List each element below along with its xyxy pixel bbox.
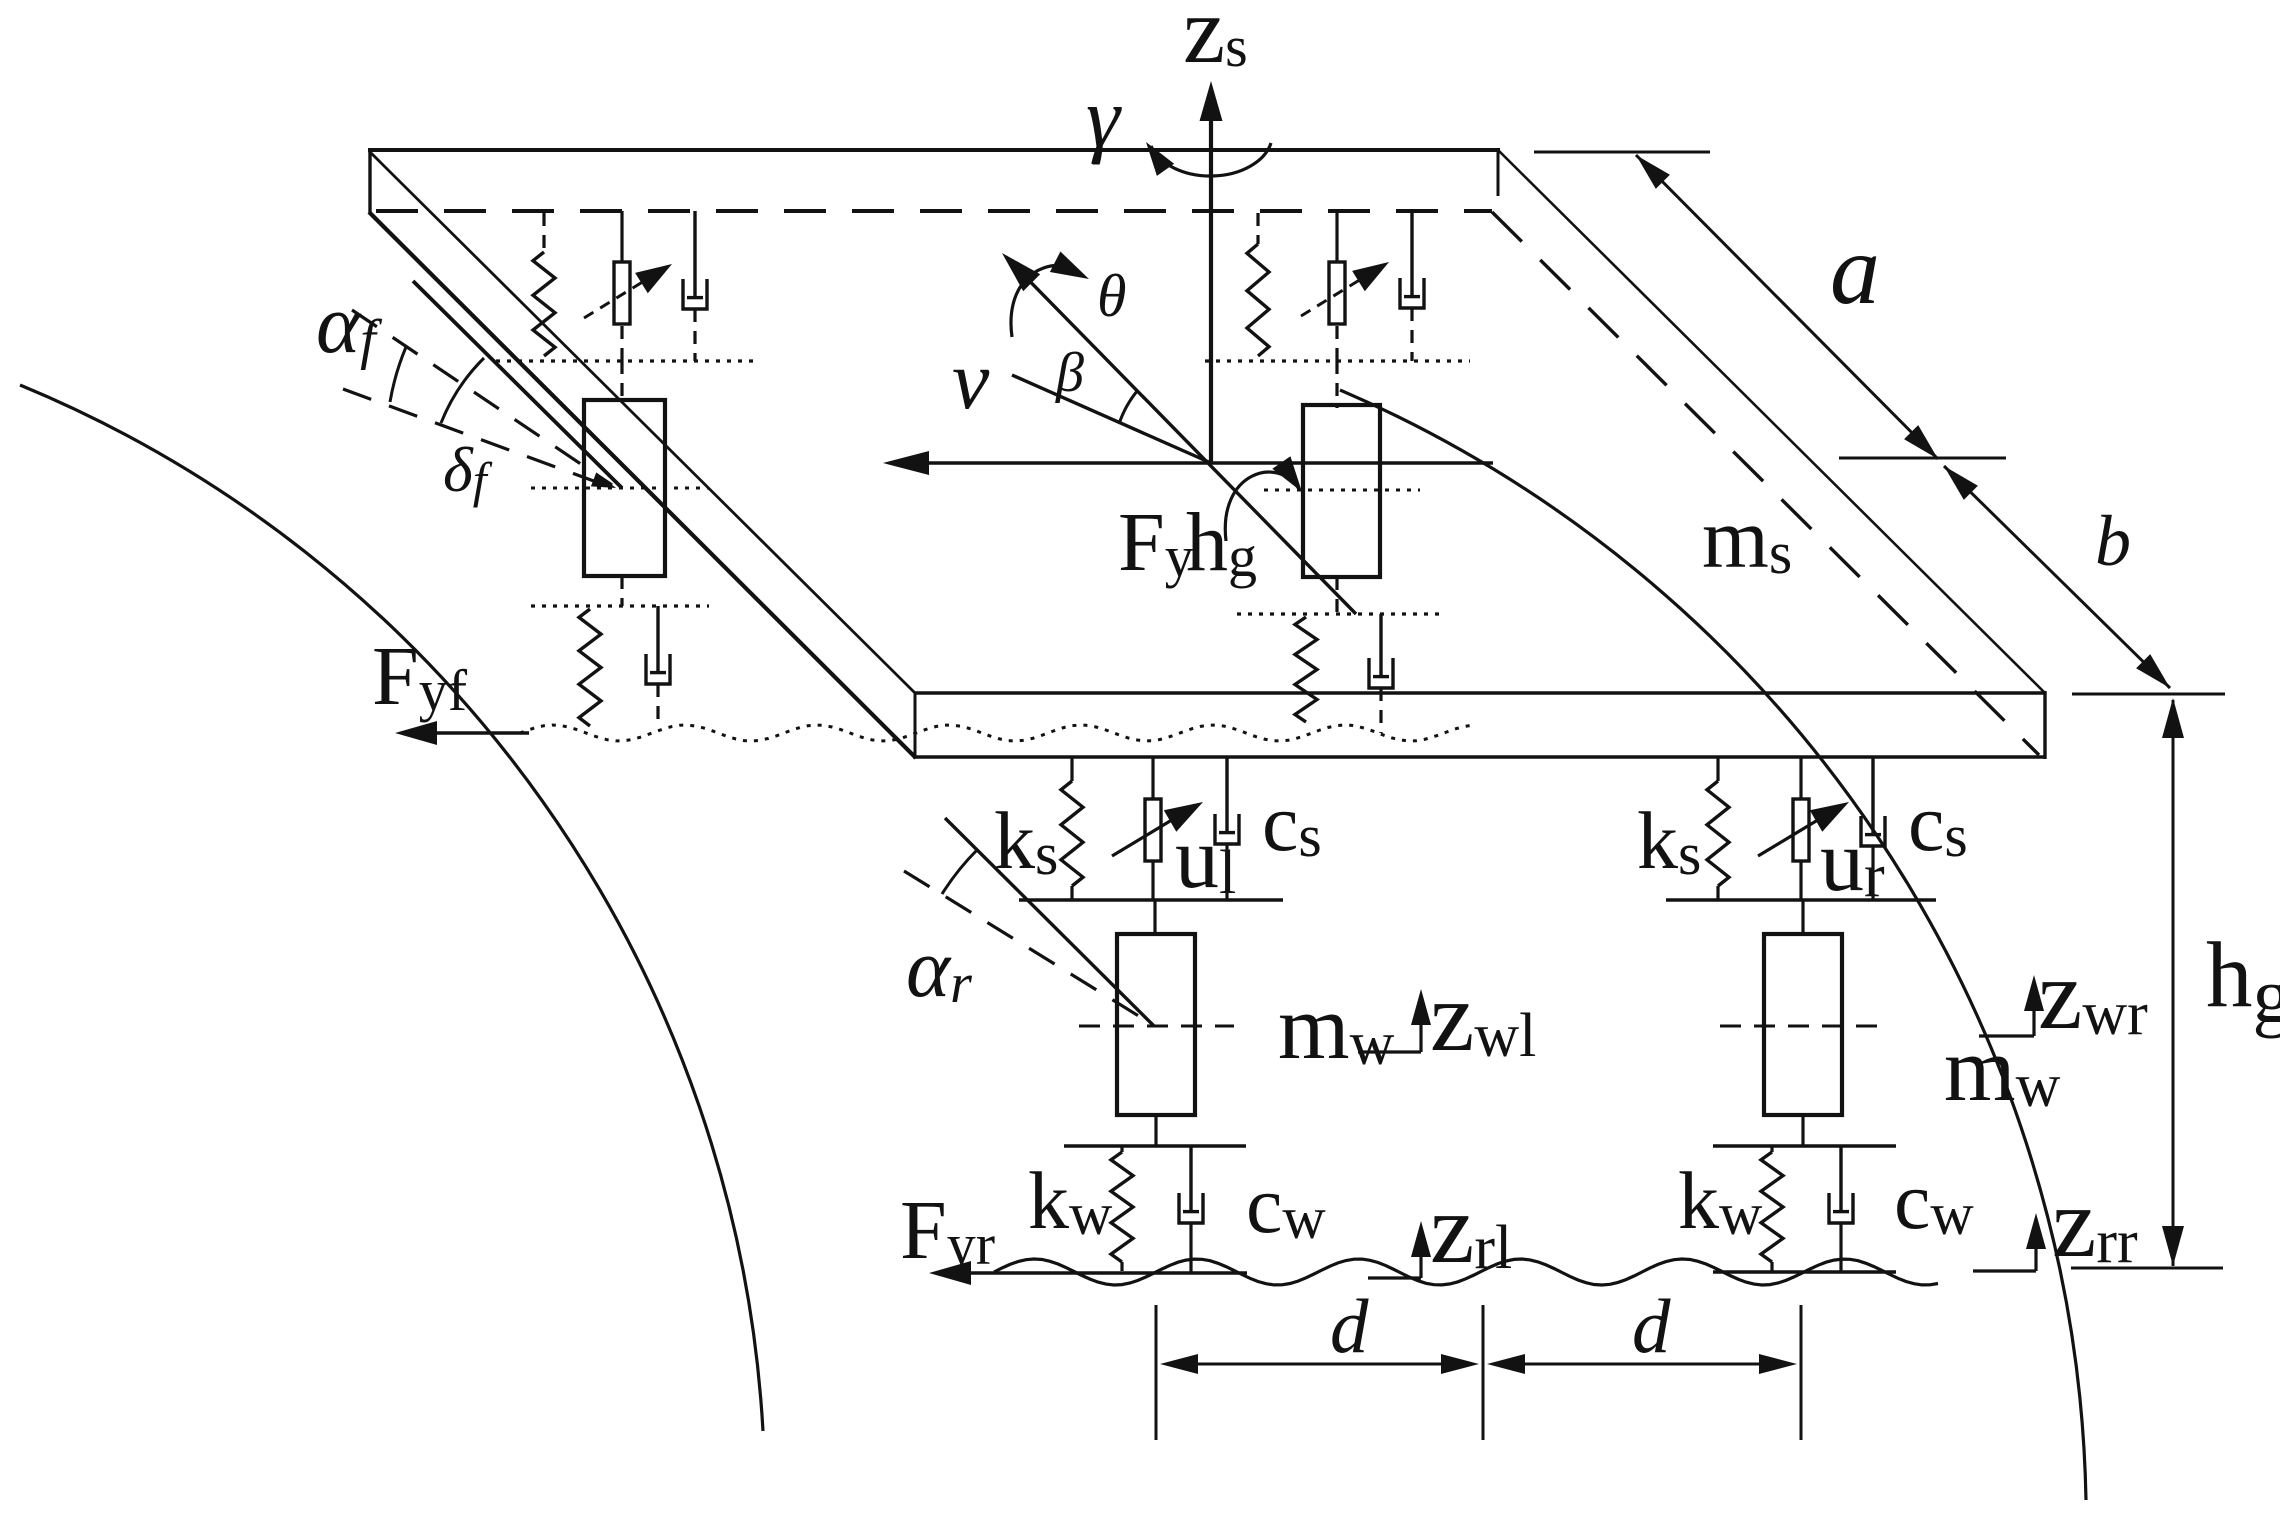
label m_s bbox=[1702, 490, 1792, 586]
label ul bbox=[1175, 810, 1236, 907]
ul actuator rod upper bbox=[1151, 757, 1154, 799]
svg-text:Fy: Fy bbox=[1118, 496, 1194, 589]
dimension hg bottom tick bbox=[2071, 1267, 2223, 1270]
dimension d mid tick bbox=[1482, 1305, 1485, 1440]
rear slip dashed line bbox=[904, 871, 1150, 1023]
label h_g bbox=[2206, 924, 2280, 1039]
mid suspension lower dotted rail bbox=[1205, 359, 1470, 362]
F_yf arrowhead bbox=[395, 721, 437, 745]
z_s axis line bbox=[1209, 104, 1213, 463]
front actuator adjust arrow (dashed) bbox=[584, 264, 672, 318]
body slab top face top edge bbox=[368, 148, 1500, 152]
dimension d left line bbox=[1170, 1363, 1469, 1366]
rear-left wheel body bbox=[1117, 934, 1195, 1115]
label kw left bbox=[1028, 1155, 1113, 1247]
lateral axis arrowhead bbox=[883, 451, 929, 475]
label Fyhg bbox=[1118, 496, 1257, 589]
left tire attachment bar bbox=[1064, 1144, 1246, 1148]
theta axis line bbox=[1006, 257, 1356, 614]
z_rr arrowhead bbox=[2026, 1213, 2046, 1249]
svg-text:ks: ks bbox=[1637, 795, 1701, 887]
svg-text:kw: kw bbox=[1678, 1155, 1763, 1247]
dimension b arrowhead bottom bbox=[2136, 654, 2170, 688]
rear slip solid line bbox=[945, 818, 1154, 1026]
dimension a arrowhead top bbox=[1636, 155, 1670, 189]
theta rotation arc bbox=[1011, 265, 1066, 337]
z_wl datum foot bbox=[1358, 995, 1421, 1052]
v velocity line bbox=[1012, 375, 1211, 463]
svg-text:zwl: zwl bbox=[1430, 961, 1536, 1072]
svg-text:ks: ks bbox=[994, 795, 1058, 887]
front tire spring bbox=[579, 609, 601, 726]
body slab hidden back bottom edge (dashed) bbox=[376, 209, 1492, 213]
dimension b arrowhead top bbox=[1944, 466, 1978, 500]
z_rr datum foot bbox=[1973, 1219, 2036, 1271]
front actuator dashed link bbox=[620, 326, 623, 361]
ur actuator rod upper bbox=[1799, 757, 1802, 799]
label F_yr bbox=[900, 1184, 995, 1277]
label d left bbox=[1330, 1283, 1369, 1369]
rear-left wheel centre dashed line bbox=[1079, 1025, 1234, 1028]
front actuator rod bbox=[620, 211, 623, 262]
cw left damper bbox=[1179, 1146, 1203, 1272]
z_wr datum foot bbox=[1979, 981, 2034, 1036]
label m_w left bbox=[1278, 976, 1395, 1078]
svg-text:β: β bbox=[1055, 342, 1084, 404]
rear upper wheel body bbox=[1303, 405, 1380, 577]
label ks left bbox=[994, 795, 1058, 887]
label cs right bbox=[1908, 777, 1968, 869]
svg-text:d: d bbox=[1632, 1283, 1671, 1369]
front suspension spring bbox=[533, 252, 555, 356]
dimension d left tick bbox=[1155, 1305, 1158, 1440]
svg-text:θ: θ bbox=[1097, 263, 1126, 329]
dimension a line bbox=[1636, 155, 1938, 459]
svg-text:ur: ur bbox=[1820, 813, 1885, 910]
kw right spring bbox=[1761, 1146, 1783, 1271]
svg-text:zwr: zwr bbox=[2038, 939, 2148, 1050]
left axle link bbox=[1153, 900, 1156, 934]
ks left spring bbox=[1061, 757, 1083, 900]
rear upper wheel centre dotted line bbox=[1264, 489, 1420, 492]
label kw right bbox=[1678, 1155, 1763, 1247]
svg-text:zrr: zrr bbox=[2052, 1167, 2138, 1278]
mid actuator rod bbox=[1335, 211, 1338, 262]
front wheel centre dotted line bbox=[531, 487, 709, 490]
dimension a arrowhead bottom bbox=[1904, 425, 1938, 459]
label z_s bbox=[1183, 0, 1248, 83]
road surface wavy line bbox=[994, 1259, 1938, 1285]
dimension b line bbox=[1944, 466, 2170, 688]
rear upper tire spring bbox=[1295, 617, 1317, 722]
dimension hg line bbox=[2172, 700, 2175, 1266]
wavy dotted reference line bbox=[520, 725, 1472, 741]
rear upper tire damper dashed link bbox=[1379, 688, 1382, 733]
mid actuator dashed link bbox=[1335, 326, 1338, 361]
rear-right wheel lower link bbox=[1801, 1115, 1804, 1146]
ul actuator rod lower bbox=[1151, 861, 1154, 900]
front suspension spring dashed lead bbox=[542, 213, 545, 252]
mid actuator body bbox=[1329, 262, 1345, 324]
body slab side face bottom edge bbox=[913, 755, 2045, 758]
ur adjust arrow bbox=[1758, 802, 1849, 856]
body slab top-right corner vertical edge bbox=[1497, 150, 1500, 196]
front wheel lower dashed link bbox=[620, 576, 623, 606]
label F_yf bbox=[372, 630, 468, 723]
z_rl datum foot bbox=[1368, 1227, 1421, 1278]
ul actuator body bbox=[1145, 799, 1161, 861]
F_yf force line bbox=[405, 731, 529, 735]
svg-text:cw: cw bbox=[1894, 1155, 1974, 1247]
front wheel dashed link bbox=[620, 361, 623, 400]
label delta_f bbox=[443, 434, 493, 508]
gamma rotation arc bbox=[1151, 143, 1271, 176]
ul adjust arrow bbox=[1112, 802, 1203, 856]
front slip line arrowhead bbox=[591, 472, 616, 488]
label b bbox=[2095, 501, 2131, 581]
F_yr force line bbox=[940, 1271, 1247, 1274]
z_rl arrowhead bbox=[1411, 1221, 1431, 1257]
right tire attachment bar bbox=[1713, 1144, 1896, 1148]
dimension d right arrowheads bbox=[1487, 1354, 1797, 1374]
rear-left wheel lower link bbox=[1154, 1115, 1157, 1146]
cw right damper bbox=[1829, 1146, 1853, 1271]
svg-text:zs: zs bbox=[1183, 0, 1248, 83]
body slab side face right edge bbox=[2043, 691, 2046, 759]
left road boundary arc bbox=[20, 385, 763, 1431]
theta axis arrowhead bbox=[1002, 253, 1040, 291]
front slip dashed line upper bbox=[352, 310, 612, 485]
dimension hg arrowhead bottom bbox=[2162, 1226, 2184, 1266]
front damper dashed link bbox=[693, 309, 696, 361]
ur actuator body bbox=[1793, 799, 1809, 861]
z_s axis arrowhead bbox=[1200, 81, 1223, 121]
body slab top face left edge bbox=[369, 151, 916, 694]
rear-right wheel centre dashed line bbox=[1720, 1025, 1879, 1028]
body slab hidden right bottom edge (dashed) bbox=[1492, 212, 2039, 755]
front damper rod bbox=[683, 211, 707, 309]
svg-text:b: b bbox=[2095, 501, 2131, 581]
cs left damper bbox=[1215, 757, 1239, 900]
label z_wr bbox=[2038, 939, 2148, 1050]
svg-text:Fyr: Fyr bbox=[900, 1184, 995, 1277]
dimension d left arrowheads bbox=[1160, 1354, 1479, 1374]
label d right bbox=[1632, 1283, 1671, 1369]
beta angle arc bbox=[1119, 390, 1138, 424]
body slab side face left edge bbox=[914, 693, 917, 757]
Fyhg arc arrowhead bbox=[1272, 456, 1302, 492]
dimension d right line bbox=[1497, 1363, 1787, 1366]
svg-text:mw: mw bbox=[1278, 976, 1395, 1078]
svg-text:αr: αr bbox=[906, 922, 972, 1015]
body slab top face right edge bbox=[1498, 150, 2046, 694]
label cw left bbox=[1246, 1159, 1326, 1251]
front tire damper dashed link bbox=[656, 684, 659, 726]
delta_f angle arc bbox=[441, 358, 484, 423]
lateral axis line bbox=[898, 461, 1493, 465]
mid actuator adjust arrow (dashed) bbox=[1301, 262, 1389, 316]
dimension b bottom tick bbox=[2072, 693, 2225, 696]
mid suspension spring bbox=[1247, 244, 1269, 356]
label beta bbox=[1055, 342, 1084, 404]
label cw right bbox=[1894, 1155, 1974, 1247]
svg-text:d: d bbox=[1330, 1283, 1369, 1369]
front wheel body bbox=[584, 400, 665, 576]
label ks right bbox=[1637, 795, 1701, 887]
svg-text:a: a bbox=[1830, 214, 1880, 325]
svg-text:v: v bbox=[952, 334, 990, 427]
svg-text:Fyf: Fyf bbox=[372, 630, 468, 723]
dimension d right tick bbox=[1800, 1305, 1803, 1440]
rear-right wheel body bbox=[1764, 934, 1842, 1115]
svg-text:γ: γ bbox=[1086, 69, 1122, 165]
ur actuator rod lower bbox=[1799, 861, 1802, 900]
svg-text:cw: cw bbox=[1246, 1159, 1326, 1251]
svg-text:hg: hg bbox=[2206, 924, 2280, 1039]
front tire damper bbox=[646, 606, 670, 684]
svg-text:cs: cs bbox=[1908, 777, 1968, 869]
dimension a mid tick bbox=[1839, 457, 2006, 460]
svg-text:cs: cs bbox=[1262, 777, 1322, 869]
body slab side face top edge bbox=[915, 691, 2045, 694]
label theta bbox=[1097, 263, 1126, 329]
svg-text:kw: kw bbox=[1028, 1155, 1113, 1247]
right axle link bbox=[1801, 900, 1804, 934]
label z_rr bbox=[2052, 1167, 2138, 1278]
dimension a top tick bbox=[1534, 151, 1710, 154]
svg-text:δf: δf bbox=[443, 434, 493, 508]
dimension hg arrowhead top bbox=[2162, 698, 2184, 738]
left axle attachment bar bbox=[1019, 898, 1283, 902]
svg-text:zrl: zrl bbox=[1430, 1173, 1512, 1284]
mid suspension spring dashed lead bbox=[1256, 213, 1259, 244]
front slip dashed line lower bbox=[343, 389, 610, 487]
svg-text:αf: αf bbox=[316, 278, 383, 371]
cs right damper bbox=[1861, 757, 1885, 900]
front wheel heading line bbox=[413, 281, 622, 488]
rear upper tire dotted rail bbox=[1237, 612, 1442, 615]
mid damper dashed link bbox=[1410, 308, 1413, 361]
rear upper wheel lower dashed link bbox=[1335, 577, 1338, 614]
label cs left bbox=[1262, 777, 1322, 869]
label v bbox=[952, 334, 990, 427]
svg-text:hg: hg bbox=[1186, 496, 1257, 589]
label m_w right bbox=[1944, 1018, 2061, 1120]
right road boundary arc bbox=[1340, 390, 2086, 1500]
right tire ground datum line bbox=[1713, 1270, 1896, 1273]
svg-text:ms: ms bbox=[1702, 490, 1792, 586]
front tire dotted rail bbox=[531, 604, 709, 607]
body slab bottom face left edge bbox=[369, 212, 916, 758]
mid wheel dashed link bbox=[1335, 361, 1338, 408]
label a bbox=[1830, 214, 1880, 325]
theta arc arrowhead bbox=[1050, 252, 1089, 280]
label z_wl bbox=[1430, 961, 1536, 1072]
label alpha_r bbox=[906, 922, 972, 1015]
ks right spring bbox=[1707, 757, 1729, 900]
kw left spring bbox=[1111, 1146, 1133, 1271]
front suspension lower dotted rail bbox=[496, 359, 753, 362]
label gamma bbox=[1086, 69, 1122, 165]
rear upper tire damper bbox=[1369, 614, 1393, 688]
label ur bbox=[1820, 813, 1885, 910]
right axle attachment bar bbox=[1666, 898, 1936, 902]
label z_rl bbox=[1430, 1173, 1512, 1284]
z_wr arrowhead bbox=[2024, 975, 2044, 1011]
alpha_f angle arc bbox=[390, 347, 406, 402]
front actuator body bbox=[614, 262, 630, 324]
alpha_r angle arc bbox=[942, 850, 977, 894]
F_yr arrowhead bbox=[929, 1261, 971, 1285]
Fyhg moment arc bbox=[1225, 472, 1299, 541]
mid damper rod bbox=[1400, 211, 1424, 308]
label alpha_f bbox=[316, 278, 383, 371]
gamma arc arrowhead bbox=[1146, 142, 1174, 176]
z_wl arrowhead bbox=[1411, 989, 1431, 1025]
body slab top-left corner vertical edge bbox=[368, 148, 371, 213]
